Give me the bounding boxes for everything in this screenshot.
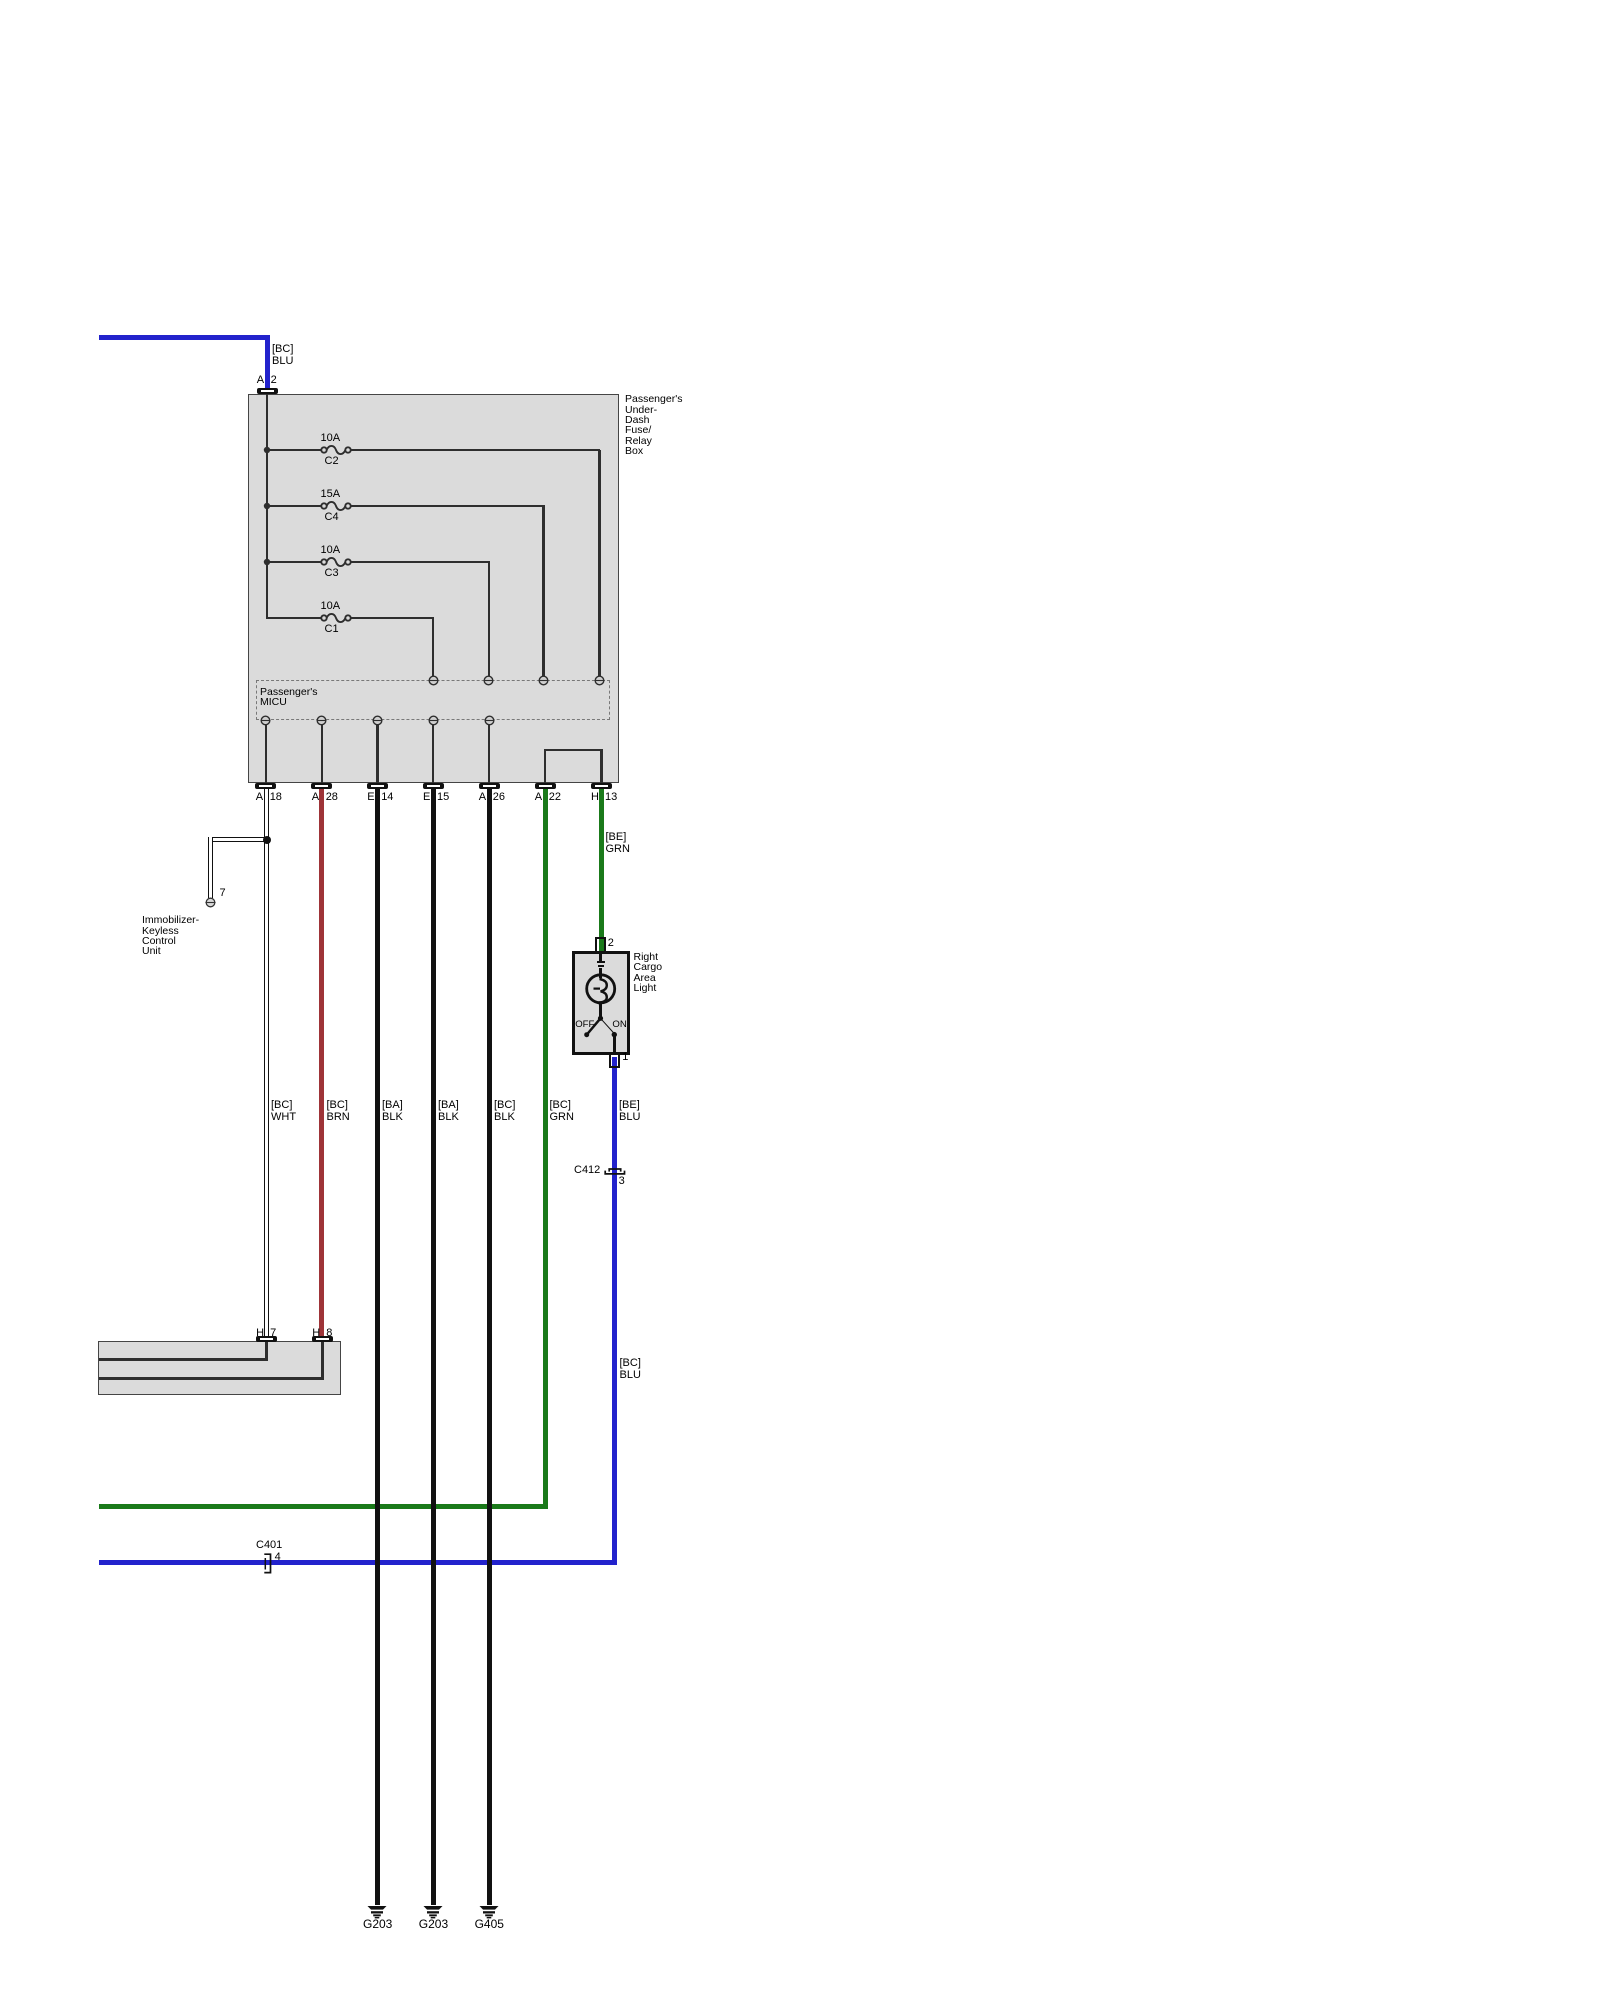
wire bus to fuse C1 bbox=[266, 617, 322, 620]
label C2 bbox=[325, 455, 339, 467]
connector 2 of cargo light bbox=[595, 937, 606, 953]
label [BC] BLK bbox=[494, 1099, 515, 1123]
wire MICU to connector E14 bbox=[376, 724, 379, 784]
terminal from fuse C2 into MICU bbox=[594, 675, 605, 686]
wire [BC] GRN A22 down-left bbox=[0, 0, 1, 1]
connector A 2 terminal label bbox=[0, 0, 1, 1]
terminal from fuse C1 into MICU bbox=[428, 675, 439, 686]
label 10A fuse C2 bbox=[321, 432, 341, 444]
label 7 bbox=[220, 887, 226, 899]
connector E 14 bbox=[0, 0, 1, 1]
inline connector C401 bbox=[260, 1550, 276, 1577]
label A 26 bbox=[0, 0, 1, 1]
label A 28 bbox=[0, 0, 1, 1]
junction white wire / immobilizer branch bbox=[262, 835, 272, 845]
label H 8 bbox=[0, 0, 1, 1]
connector A 2 bbox=[0, 0, 1, 1]
wire MICU to connector A18 bbox=[265, 724, 268, 784]
label E 15 bbox=[0, 0, 1, 1]
label 10A fuse C1 bbox=[321, 600, 341, 612]
label 10A fuse C3 bbox=[321, 544, 341, 556]
label [BA] BLK (E14) bbox=[382, 1099, 403, 1123]
wire fuse C2 output bbox=[0, 0, 1, 1]
Right Cargo Area Light box bbox=[572, 951, 630, 1055]
label E 14 bbox=[0, 0, 1, 1]
wire MICU to connector A26 bbox=[488, 724, 491, 784]
label 3 bbox=[619, 1175, 625, 1187]
wire bus to fuse C4 bbox=[266, 505, 322, 508]
connector 1 of cargo light bbox=[609, 1052, 620, 1068]
label C412 bbox=[574, 1164, 600, 1176]
bulb of cargo light bbox=[584, 972, 618, 1006]
label [BE] BLU bbox=[619, 1099, 640, 1123]
terminal MICU out to A26 bbox=[484, 715, 495, 726]
terminal 7 immobilizer bbox=[205, 897, 216, 908]
label H 13 bbox=[0, 0, 1, 1]
label 2 bbox=[608, 937, 614, 949]
ground G203 bbox=[367, 1905, 387, 1919]
label Immobilizer-Keyless Control Unit bbox=[142, 915, 199, 957]
wire BLK E14 to G203 bbox=[375, 789, 380, 1905]
connector H 8 bbox=[0, 0, 1, 1]
fuse C1 10A bbox=[318, 610, 354, 626]
wire fuse C1 output bbox=[0, 0, 1, 1]
wire [BE] GRN H13 to cargo light bbox=[599, 789, 604, 951]
label OFF bbox=[575, 1020, 594, 1030]
terminal from fuse C4 into MICU bbox=[538, 675, 549, 686]
inline connector C412 bbox=[603, 1165, 627, 1177]
connector E 15 bbox=[0, 0, 1, 1]
connector A 22 bbox=[0, 0, 1, 1]
label [BA] BLK (E15) bbox=[438, 1099, 459, 1123]
label [BC] GRN bbox=[550, 1099, 574, 1123]
connector A 26 bbox=[0, 0, 1, 1]
wire BLK E15 to G203 bbox=[431, 789, 436, 1905]
ground G405 bbox=[479, 1905, 499, 1919]
wire socket to bulb bbox=[599, 968, 602, 979]
wire bus to fuse C2 bbox=[266, 449, 322, 452]
connector H 13 bbox=[0, 0, 1, 1]
wire bulb to switch pivot bbox=[599, 1003, 602, 1019]
wire [BC] WHT A18 to H7 bbox=[264, 789, 269, 1336]
switch OFF/ON bbox=[580, 1012, 624, 1040]
junction bus/C3 bbox=[263, 558, 271, 566]
connector H 7 bbox=[0, 0, 1, 1]
label Right Cargo Area Light bbox=[634, 952, 663, 994]
label [BC] BLU lower bbox=[620, 1357, 641, 1381]
wire jumper A22 to H13 bbox=[0, 0, 1, 1]
junction bus/C2 bbox=[263, 446, 271, 454]
wire H7 inside block bbox=[0, 0, 1, 1]
label 4 bbox=[275, 1551, 281, 1563]
ground G203 bbox=[423, 1905, 443, 1919]
label [BE] GRN bbox=[606, 831, 630, 855]
label 15A fuse C4 bbox=[321, 488, 341, 500]
wire [BC] BLU feed from battery bbox=[0, 0, 1, 1]
wire bus to fuse C3 bbox=[266, 561, 322, 564]
label [BC] BLU bbox=[272, 343, 293, 367]
label [BC] WHT bbox=[271, 1099, 296, 1123]
label Passenger's Under-Dash Fuse/Relay Box bbox=[625, 394, 682, 456]
wire [BE] BLU cargo light out bbox=[612, 1057, 617, 1070]
connector A 18 bbox=[0, 0, 1, 1]
MICU H-connector block box bbox=[98, 1341, 342, 1395]
label Passenger's MICU bbox=[260, 687, 317, 708]
label C401 bbox=[256, 1539, 282, 1551]
wire fuse C4 output bbox=[0, 0, 1, 1]
label A 18 bbox=[0, 0, 1, 1]
wire MICU to connector E15 bbox=[432, 724, 435, 784]
bulb socket bars bbox=[0, 0, 1, 1]
wire [BC] BLU return bbox=[0, 0, 1, 1]
wire ON contact down bbox=[613, 1035, 616, 1053]
terminal MICU out to A28 bbox=[316, 715, 327, 726]
label C1 bbox=[325, 623, 339, 635]
wire connector2 to socket bbox=[599, 952, 602, 961]
wire H8 inside block bbox=[0, 0, 1, 1]
label [BC] BRN bbox=[327, 1099, 350, 1123]
label C3 bbox=[325, 567, 339, 579]
label G203 bbox=[419, 1918, 448, 1931]
wire fuse C3 output bbox=[0, 0, 1, 1]
terminal MICU out to E14 bbox=[372, 715, 383, 726]
fuse C3 10A bbox=[318, 554, 354, 570]
label C4 bbox=[325, 511, 339, 523]
connector A 28 bbox=[0, 0, 1, 1]
Passenger's Under-Dash Fuse/Relay Box bbox=[248, 394, 619, 783]
label 1 bbox=[622, 1051, 628, 1063]
label H 7 bbox=[0, 0, 1, 1]
Passenger's MICU dashed box bbox=[256, 680, 610, 720]
fuse C2 10A bbox=[318, 442, 354, 458]
wire MICU to connector A28 bbox=[321, 724, 324, 784]
terminal from fuse C3 into MICU bbox=[483, 675, 494, 686]
label G203 bbox=[363, 1918, 392, 1931]
terminal MICU out to E15 bbox=[428, 715, 439, 726]
label ON bbox=[612, 1020, 626, 1030]
terminal MICU out to A18 bbox=[260, 715, 271, 726]
label G405 bbox=[475, 1918, 504, 1931]
junction bus/C4 bbox=[263, 502, 271, 510]
label A 22 bbox=[0, 0, 1, 1]
wire BLK A26 to G405 bbox=[487, 789, 492, 1905]
fuse C4 15A bbox=[318, 498, 354, 514]
wire internal bus from A2 bbox=[266, 394, 269, 619]
wire [BC] BRN A28 to H8 bbox=[319, 789, 324, 1336]
wire branch to immobilizer bbox=[0, 0, 1, 1]
